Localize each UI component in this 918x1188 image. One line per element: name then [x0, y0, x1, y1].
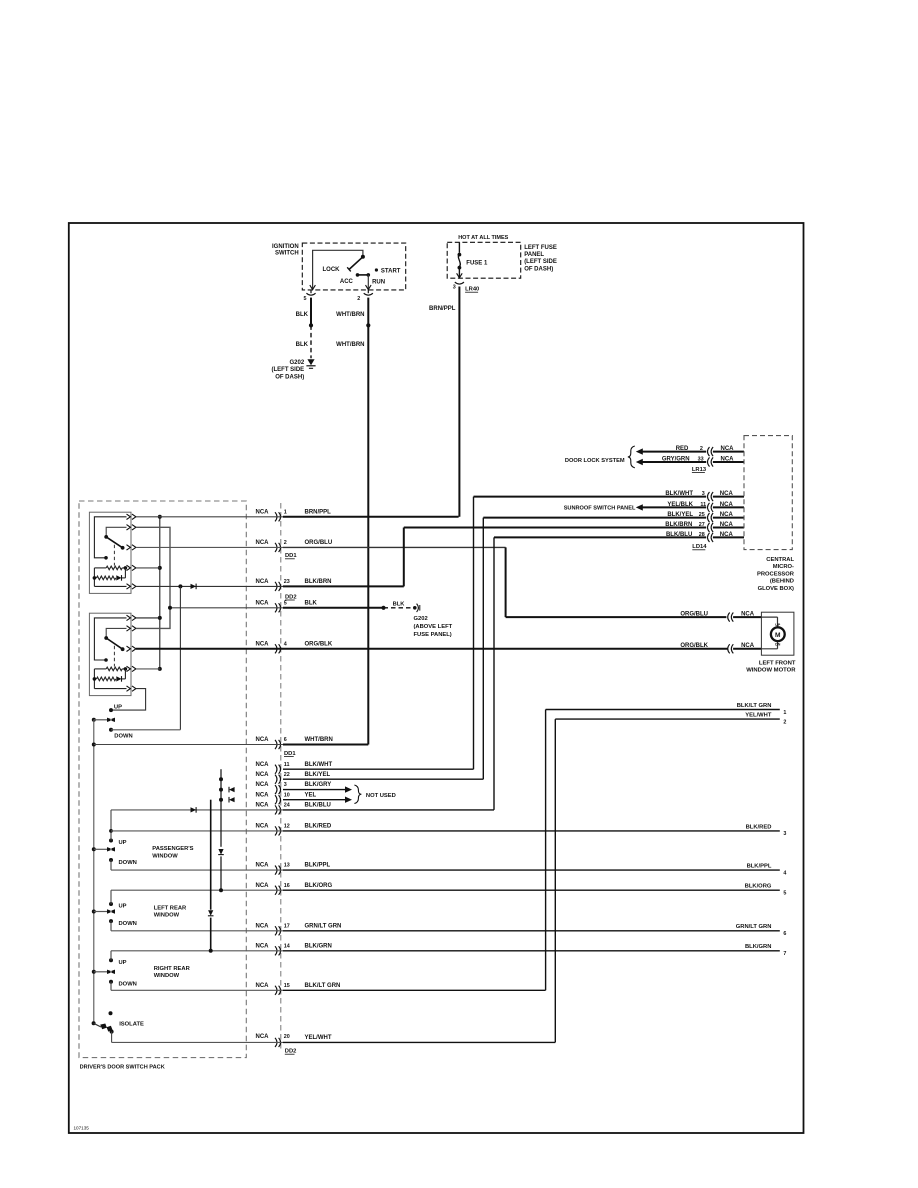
svg-text:5: 5 — [304, 296, 307, 302]
common rail junction row6 — [94, 744, 283, 746]
svg-text:BLK/LT GRN: BLK/LT GRN — [737, 703, 772, 709]
door lock brace — [628, 446, 635, 468]
svg-text:LEFT REAR: LEFT REAR — [154, 905, 187, 911]
svg-text:YEL/WHT: YEL/WHT — [745, 713, 772, 719]
row pin 20 YEL/WHT — [283, 1041, 555, 1043]
module S1 left rail and ground side — [93, 568, 95, 587]
svg-text:M: M — [775, 632, 781, 639]
wire BLK/LT GRN to right edge pin 1 — [546, 709, 780, 711]
svg-text:BLK/WHT: BLK/WHT — [305, 762, 333, 768]
wire BLK from ignition pin 5 — [310, 298, 312, 326]
module S2 left rail and ground side — [93, 669, 95, 689]
svg-text:2: 2 — [284, 540, 287, 546]
svg-text:BLK/GRY: BLK/GRY — [305, 782, 332, 788]
driver window toggle switch — [109, 708, 113, 712]
left front window motor box — [761, 612, 794, 655]
row pin 10 YEL not used — [283, 799, 345, 801]
junction BLK row to modules — [169, 607, 283, 609]
svg-text:WHT/BRN: WHT/BRN — [336, 342, 364, 348]
svg-text:ORG/BLU: ORG/BLU — [680, 611, 708, 617]
svg-text:LEFT FUSE: LEFT FUSE — [524, 245, 557, 251]
svg-text:IGNITION: IGNITION — [272, 244, 299, 250]
left rear DOWN to row 17 — [110, 921, 112, 931]
wire BLK/LT GRN vertical to right pin 1 — [545, 710, 547, 991]
row pin 15 BLK/LT GRN — [283, 989, 546, 991]
svg-text:3: 3 — [702, 491, 705, 497]
svg-text:2: 2 — [357, 296, 360, 302]
svg-text:ORG/BLK: ORG/BLK — [680, 643, 708, 649]
svg-text:33: 33 — [698, 456, 704, 462]
svg-text:GRN/LT GRN: GRN/LT GRN — [736, 924, 772, 930]
wire ORG/BLU to window motor — [505, 547, 507, 617]
module S2 resistor R1 — [94, 668, 106, 670]
svg-text:NCA: NCA — [720, 491, 734, 497]
svg-text:CENTRAL: CENTRAL — [766, 557, 794, 563]
svg-text:SUNROOF SWITCH PANEL: SUNROOF SWITCH PANEL — [564, 506, 636, 512]
wire BLK dashed to G202 above fuse panel — [384, 607, 415, 609]
svg-text:BLK/PPL: BLK/PPL — [305, 863, 331, 869]
svg-text:BLK/LT GRN: BLK/LT GRN — [305, 983, 341, 989]
svg-text:YEL/WHT: YEL/WHT — [305, 1035, 332, 1041]
svg-text:BLK/PPL: BLK/PPL — [747, 864, 772, 870]
svg-text:ISOLATE: ISOLATE — [119, 1021, 144, 1027]
svg-text:NCA: NCA — [741, 611, 755, 617]
svg-text:GRN/LT GRN: GRN/LT GRN — [305, 923, 342, 929]
passenger window toggle switch — [109, 839, 113, 843]
central microprocessor box — [744, 436, 792, 550]
module S2 switch arm wire pin2 — [106, 628, 126, 637]
svg-text:NCA: NCA — [256, 824, 270, 830]
svg-text:NCA: NCA — [741, 643, 755, 649]
S1 pin4 wire to rail — [136, 567, 160, 569]
wire BLK/WHT vertical — [473, 497, 475, 770]
svg-text:NCA: NCA — [256, 792, 270, 798]
wire YEL/WHT to right edge pin 2 — [555, 718, 780, 720]
svg-text:107135: 107135 — [74, 1126, 90, 1131]
ground G202 above left fuse panel — [413, 606, 417, 610]
svg-text:RED: RED — [676, 446, 689, 452]
wire YEL/BLK to sunroof switch panel — [636, 504, 643, 510]
left fuse panel box — [447, 242, 521, 278]
svg-text:5: 5 — [284, 600, 287, 606]
rail B from row 10 with diode to row 14 — [210, 800, 212, 910]
svg-text:NCA: NCA — [721, 446, 735, 452]
ground G202 left side of dash — [307, 359, 314, 365]
module S2 resistor R2 — [94, 678, 96, 680]
svg-text:WINDOW: WINDOW — [154, 973, 180, 979]
svg-text:BLK/BLU: BLK/BLU — [666, 532, 692, 538]
drivers door switch pack box — [79, 501, 246, 1058]
svg-text:UP: UP — [775, 623, 781, 627]
svg-text:DRIVER'S DOOR SWITCH PACK: DRIVER'S DOOR SWITCH PACK — [80, 1065, 165, 1071]
module S2 switch arm — [104, 636, 108, 640]
S2 pin5 wire to first toggle UP — [113, 689, 146, 711]
row pin 22 BLK/YEL — [283, 778, 483, 780]
svg-text:ACC: ACC — [340, 279, 354, 285]
svg-text:UP: UP — [119, 904, 127, 910]
svg-text:NCA: NCA — [720, 512, 734, 518]
svg-text:2: 2 — [783, 719, 786, 725]
svg-text:NCA: NCA — [256, 863, 270, 869]
S2 pin3 wire to NCA row 4 ORG/BLK — [136, 648, 283, 650]
svg-text:(ABOVE LEFT: (ABOVE LEFT — [414, 624, 453, 630]
svg-text:OF DASH): OF DASH) — [524, 266, 553, 272]
svg-text:NCA: NCA — [256, 943, 270, 949]
row pin 13 BLK/PPL — [283, 869, 780, 871]
svg-text:LR40: LR40 — [465, 287, 479, 293]
svg-text:WHT/BRN: WHT/BRN — [305, 737, 333, 743]
svg-text:NOT USED: NOT USED — [366, 793, 396, 799]
svg-text:11: 11 — [700, 502, 706, 508]
svg-text:BLK: BLK — [393, 602, 406, 608]
splice on BLK row — [381, 606, 385, 610]
module S1 switch arm — [104, 535, 108, 539]
svg-text:YEL/BLK: YEL/BLK — [667, 502, 693, 508]
svg-text:HOT AT ALL TIMES: HOT AT ALL TIMES — [458, 235, 508, 241]
svg-text:ORG/BLU: ORG/BLU — [305, 540, 333, 546]
svg-text:BLK: BLK — [296, 342, 309, 348]
row pin 4 ORG/BLK — [283, 648, 728, 650]
svg-text:NCA: NCA — [720, 532, 734, 538]
svg-text:SWITCH: SWITCH — [275, 251, 299, 257]
wire WHT/BRN vertical from ignition pin 2 — [367, 298, 369, 326]
svg-text:MICRO-: MICRO- — [773, 564, 794, 570]
row pin 6 WHT/BRN — [283, 744, 368, 746]
isolate to row 20 — [111, 1032, 113, 1043]
S2 pin4 wire to rail — [136, 668, 160, 670]
svg-text:24: 24 — [284, 803, 290, 809]
svg-text:DOWN: DOWN — [119, 982, 137, 988]
rail A from row 11 with diode to row 16 — [220, 769, 222, 847]
NOT USED brace — [354, 785, 361, 804]
svg-text:BLK/GRN: BLK/GRN — [745, 944, 771, 950]
svg-text:START: START — [381, 269, 401, 275]
left rear UP to row 16 — [110, 890, 112, 904]
module S2 actuator dashed link — [113, 646, 115, 667]
svg-text:NCA: NCA — [256, 772, 270, 778]
svg-text:NCA: NCA — [256, 641, 270, 647]
svg-text:OF DASH): OF DASH) — [275, 374, 304, 380]
diode on row 3 BLK/GRY — [228, 787, 230, 793]
svg-text:BLK: BLK — [305, 600, 318, 606]
svg-text:20: 20 — [284, 1034, 290, 1040]
svg-text:NCA: NCA — [256, 803, 270, 809]
module S1 diode internal — [116, 575, 121, 580]
svg-text:2: 2 — [700, 446, 703, 452]
row pin 12 BLK/RED — [283, 830, 780, 832]
svg-text:DD2: DD2 — [285, 1049, 297, 1055]
motor internal wires — [761, 616, 777, 618]
svg-text:10: 10 — [284, 792, 290, 798]
svg-text:BLK/BRN: BLK/BRN — [305, 579, 332, 585]
svg-text:NCA: NCA — [256, 579, 270, 585]
svg-text:15: 15 — [284, 983, 290, 989]
svg-text:4: 4 — [783, 870, 786, 876]
svg-text:(LEFT SIDE: (LEFT SIDE — [524, 259, 557, 265]
wire first toggle DOWN to rail — [111, 729, 180, 731]
svg-text:DOWN: DOWN — [119, 860, 137, 866]
svg-text:BLK/ORG: BLK/ORG — [745, 884, 772, 890]
passenger DOWN to row 13 — [110, 860, 112, 870]
wire BLK/YEL vertical — [482, 518, 484, 780]
svg-text:13: 13 — [284, 863, 290, 869]
svg-text:DOOR LOCK SYSTEM: DOOR LOCK SYSTEM — [565, 458, 625, 464]
svg-text:YEL: YEL — [305, 792, 317, 798]
svg-text:7: 7 — [783, 951, 786, 957]
diode on BLK/BLU row — [191, 807, 197, 812]
svg-text:UP: UP — [114, 705, 122, 711]
right rear window toggle switch — [109, 958, 113, 962]
ignition switch box — [302, 243, 405, 290]
svg-text:3: 3 — [783, 831, 786, 837]
wire BLK/BRN to sunroof — [404, 527, 706, 529]
svg-text:WINDOW MOTOR: WINDOW MOTOR — [746, 668, 796, 674]
svg-text:NCA: NCA — [721, 456, 735, 462]
svg-text:27: 27 — [699, 522, 705, 528]
svg-text:17: 17 — [284, 923, 290, 929]
S1 pin5 wire with diode to NCA row 23 — [136, 585, 283, 587]
svg-text:12: 12 — [284, 824, 290, 830]
svg-text:NCA: NCA — [256, 1034, 270, 1040]
splice on BLK wire — [309, 323, 313, 327]
svg-text:PROCESSOR: PROCESSOR — [757, 571, 795, 577]
svg-text:5: 5 — [783, 891, 786, 897]
ignition switch rotor contact — [361, 255, 365, 259]
ignition switch arm LOCK — [349, 257, 363, 270]
svg-text:14: 14 — [284, 943, 290, 949]
svg-text:BLK/RED: BLK/RED — [746, 824, 772, 830]
svg-text:16: 16 — [284, 883, 290, 889]
wire BLK/WHT to sunroof — [474, 496, 707, 498]
row pin 3 BLK/GRY not used — [283, 789, 345, 791]
svg-text:G202: G202 — [414, 616, 428, 622]
svg-text:NCA: NCA — [256, 883, 270, 889]
module S2 pin chevrons — [127, 615, 131, 620]
row pin 5 BLK — [283, 607, 384, 609]
row pin 16 BLK/ORG — [283, 889, 780, 891]
svg-text:(LEFT SIDE: (LEFT SIDE — [272, 367, 305, 373]
svg-text:22: 22 — [284, 772, 290, 778]
svg-text:DOWN: DOWN — [114, 734, 132, 740]
svg-text:NCA: NCA — [256, 540, 270, 546]
wire ORG/BLK to window motor — [728, 644, 730, 653]
module S1 resistor R2 — [94, 577, 96, 579]
wire RED to door lock — [636, 448, 643, 454]
svg-text:6: 6 — [284, 737, 287, 743]
svg-text:NCA: NCA — [256, 509, 270, 515]
svg-text:BLK/BRN: BLK/BRN — [665, 522, 692, 528]
svg-text:BLK/ORG: BLK/ORG — [305, 883, 333, 889]
svg-text:(BEHIND: (BEHIND — [770, 579, 794, 585]
svg-text:BLK/GRN: BLK/GRN — [305, 943, 332, 949]
diode on row 10 YEL — [228, 797, 230, 803]
supply rail from pin 1 — [159, 517, 161, 669]
rail from S1 pin5 to first toggle DOWN — [179, 586, 181, 729]
svg-text:UP: UP — [119, 960, 127, 966]
wire YEL/WHT vertical to right pin 2 — [554, 719, 556, 1042]
svg-text:3: 3 — [284, 782, 287, 788]
wire BLK/BLU to sunroof — [494, 536, 706, 538]
wire BLK dashed to ground — [310, 325, 312, 358]
motor M circle — [771, 627, 785, 641]
ACC contact — [356, 273, 360, 277]
svg-text:NCA: NCA — [256, 762, 270, 768]
svg-text:DD1: DD1 — [285, 553, 297, 559]
module S1 resistor R1 — [94, 567, 106, 569]
svg-text:PANEL: PANEL — [524, 252, 544, 258]
svg-text:G202: G202 — [290, 360, 305, 366]
svg-text:NCA: NCA — [720, 502, 734, 508]
svg-text:3: 3 — [453, 284, 456, 290]
svg-text:NCA: NCA — [256, 600, 270, 606]
row pin 24 BLK/BLU — [283, 809, 494, 811]
svg-text:WINDOW: WINDOW — [154, 913, 180, 919]
svg-text:NCA: NCA — [256, 923, 270, 929]
module S1 actuator dashed link — [113, 545, 115, 566]
row pin 17 GRN/LT GRN — [283, 930, 780, 932]
module S2 box — [89, 613, 131, 695]
S1 pin1 wire to NCA row 1 — [136, 516, 283, 518]
svg-text:1: 1 — [284, 509, 287, 515]
svg-text:RUN: RUN — [372, 279, 385, 285]
RUN wire — [358, 274, 369, 276]
wire GRY/GRN to door lock — [636, 459, 643, 465]
svg-text:1: 1 — [783, 710, 786, 716]
svg-text:WINDOW: WINDOW — [152, 853, 178, 859]
svg-text:LD14: LD14 — [692, 544, 707, 550]
row pin 1 BRN/PPL — [283, 516, 459, 518]
row pin 2 ORG/BLU — [283, 546, 506, 548]
module S1 supply wire pin1 — [94, 517, 126, 558]
svg-text:BLK/RED: BLK/RED — [305, 824, 332, 830]
module S1 box — [89, 512, 131, 593]
svg-text:WHT/BRN: WHT/BRN — [336, 312, 364, 318]
row pin 23 BLK/BRN — [283, 585, 404, 587]
module S2 supply wire pin1 — [94, 618, 126, 660]
S2 pin1 wire to rail — [136, 617, 160, 619]
svg-text:DD1: DD1 — [284, 751, 296, 757]
module S1 pin chevrons — [127, 514, 131, 519]
left rear window toggle switch — [109, 902, 113, 906]
START contact — [375, 268, 378, 271]
row pin 11 BLK/WHT — [283, 768, 474, 770]
svg-text:NCA: NCA — [256, 737, 270, 743]
svg-text:NCA: NCA — [256, 983, 270, 989]
wire BLK/YEL to sunroof — [483, 517, 706, 519]
page border frame — [69, 223, 804, 1133]
svg-text:PASSENGER'S: PASSENGER'S — [152, 846, 193, 852]
ignition switch internal wire — [313, 250, 363, 290]
wire BLK/BLU row24 to passenger toggle — [111, 809, 283, 811]
svg-text:LOCK: LOCK — [323, 267, 341, 273]
svg-text:25: 25 — [699, 512, 705, 518]
svg-text:DOWN: DOWN — [119, 921, 137, 927]
wire BLK/BRN vertical to sunroof feed — [403, 528, 405, 587]
wire BRN/PPL from fuse to pin 1 — [458, 287, 460, 517]
svg-text:28: 28 — [699, 532, 705, 538]
svg-text:NCA: NCA — [720, 522, 734, 528]
fuse 1 — [458, 242, 460, 253]
svg-text:DN: DN — [775, 643, 781, 647]
right rear UP to row 14 — [110, 951, 112, 961]
svg-text:BLK/WHT: BLK/WHT — [665, 491, 693, 497]
svg-text:NCA: NCA — [256, 782, 270, 788]
svg-text:BLK: BLK — [296, 312, 309, 318]
row12 left segment — [111, 830, 283, 832]
S1 pin3 wire to NCA row 2 — [136, 546, 283, 548]
svg-text:BLK/YEL: BLK/YEL — [667, 512, 693, 518]
svg-text:23: 23 — [284, 579, 290, 585]
svg-text:LEFT FRONT: LEFT FRONT — [759, 660, 796, 666]
svg-text:GLOVE BOX): GLOVE BOX) — [758, 586, 794, 592]
svg-text:6: 6 — [783, 931, 786, 937]
svg-text:4: 4 — [284, 641, 287, 647]
wire S1 pin2 to BLK row and S2 pin2 — [136, 527, 170, 628]
row pin 14 BLK/GRN — [283, 950, 780, 952]
svg-text:RIGHT REAR: RIGHT REAR — [154, 966, 191, 972]
svg-text:FUSE PANEL): FUSE PANEL) — [414, 632, 452, 638]
right rear DOWN to row 15 — [110, 982, 112, 991]
isolate switch — [92, 1021, 96, 1025]
svg-text:UP: UP — [119, 840, 127, 846]
svg-text:ORG/BLK: ORG/BLK — [305, 641, 333, 647]
toggle common rail — [93, 720, 95, 1024]
wire BLK/BLU vertical — [493, 537, 495, 810]
svg-text:FUSE 1: FUSE 1 — [466, 260, 488, 266]
svg-text:LR13: LR13 — [692, 467, 707, 473]
svg-text:BLK/BLU: BLK/BLU — [305, 803, 331, 809]
module S1 switch arm wire pin2 — [106, 527, 126, 536]
connector NCA dashed line — [280, 503, 282, 1051]
module S2 diode internal — [116, 676, 121, 681]
svg-text:BLK/YEL: BLK/YEL — [305, 772, 331, 778]
svg-text:BRN/PPL: BRN/PPL — [429, 306, 456, 312]
svg-text:GRY/GRN: GRY/GRN — [662, 456, 690, 462]
svg-text:BRN/PPL: BRN/PPL — [305, 509, 332, 515]
svg-text:11: 11 — [284, 762, 290, 768]
